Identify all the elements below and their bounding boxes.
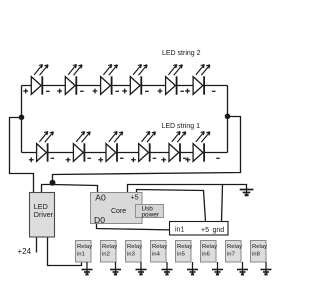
ground relay1 — [82, 262, 93, 275]
LED D2 — [57, 65, 83, 95]
svg-text:Core: Core — [111, 208, 126, 215]
wire string1 left feed — [21, 118, 23, 153]
LED D11 — [161, 132, 186, 163]
ground symbol main — [240, 190, 254, 196]
svg-text:in4: in4 — [152, 252, 161, 258]
svg-text:in7: in7 — [227, 252, 235, 258]
svg-text:Relay: Relay — [77, 244, 92, 250]
svg-text:+5: +5 — [131, 195, 139, 202]
svg-text:in1: in1 — [77, 252, 85, 258]
svg-text:Relay: Relay — [227, 244, 242, 250]
wire gnd tap to in1 — [222, 185, 223, 222]
svg-text:LED string 2: LED string 2 — [162, 50, 201, 57]
wire core gnd net — [128, 185, 247, 196]
svg-text:+24: +24 — [18, 247, 32, 256]
node left junction — [19, 115, 25, 121]
LED D9 — [98, 132, 123, 163]
ground relay6 — [212, 262, 223, 275]
LED D5 — [158, 65, 184, 95]
ground relay2 — [110, 262, 121, 275]
svg-text:in2: in2 — [102, 252, 110, 258]
svg-text:Driver: Driver — [34, 210, 54, 219]
wire driver to relay in1 — [48, 237, 82, 266]
svg-text:D0: D0 — [94, 215, 105, 225]
box Relay in2 — [101, 241, 118, 263]
wire D0 to in1 — [97, 224, 170, 230]
box Relay in3 — [126, 241, 143, 263]
wire string1 row — [22, 152, 228, 154]
LED D7 — [29, 132, 54, 163]
wire junction to driver pin — [42, 185, 53, 193]
svg-text:LED string 1: LED string 1 — [162, 123, 201, 130]
box LED Driver U1 — [30, 193, 55, 238]
box in1 module — [170, 222, 229, 236]
wire left rail to driver — [10, 118, 34, 193]
LED D1 — [23, 65, 49, 95]
svg-text:gnd: gnd — [213, 227, 225, 234]
svg-text:+5: +5 — [201, 227, 209, 234]
LED D4 — [122, 65, 148, 95]
box Relay in5 — [176, 241, 193, 263]
wire string1 right cathode drop — [227, 117, 229, 153]
LED D3 — [93, 65, 119, 95]
svg-text:Relay: Relay — [252, 244, 267, 250]
svg-text:in5: in5 — [177, 252, 186, 258]
box Relay in8 — [251, 241, 268, 263]
LED D6 — [185, 65, 215, 95]
node driver junction — [50, 180, 56, 186]
box Core U2 — [91, 193, 143, 226]
ground relay4 — [162, 262, 173, 275]
box Relay in6 — [201, 241, 218, 263]
svg-text:in1: in1 — [175, 227, 184, 234]
box Usb power — [136, 205, 164, 219]
svg-text:A0: A0 — [95, 193, 106, 203]
LED D12 — [185, 132, 219, 163]
svg-text:power: power — [142, 212, 160, 219]
wire string2 left drop — [21, 86, 23, 118]
svg-text:in6: in6 — [202, 252, 211, 258]
ground relay5 — [187, 262, 198, 275]
svg-text:Relay: Relay — [127, 244, 142, 250]
ground relay7 — [237, 262, 248, 275]
box Relay in7 — [226, 241, 243, 263]
svg-text:Relay: Relay — [102, 244, 117, 250]
svg-text:in3: in3 — [127, 252, 136, 258]
box Relay in1 — [76, 241, 93, 263]
box Relay in4 — [151, 241, 168, 263]
svg-text:in8: in8 — [252, 252, 261, 258]
ground relay8 — [261, 262, 272, 275]
wire string2 right cathode drop — [227, 86, 229, 117]
svg-text:Relay: Relay — [177, 244, 192, 250]
svg-text:Relay: Relay — [152, 244, 167, 250]
wire right return rail — [53, 117, 241, 182]
LED D10 — [131, 132, 156, 163]
wire driver +24 pin — [36, 237, 38, 253]
LED D8 — [66, 132, 91, 163]
wire +5 net core to in1 — [137, 190, 206, 222]
ground relay3 — [136, 262, 147, 275]
node right junction — [225, 114, 231, 120]
svg-text:Relay: Relay — [202, 244, 217, 250]
wire junction to A0 pin — [53, 185, 98, 193]
wire string2 row — [22, 85, 228, 87]
